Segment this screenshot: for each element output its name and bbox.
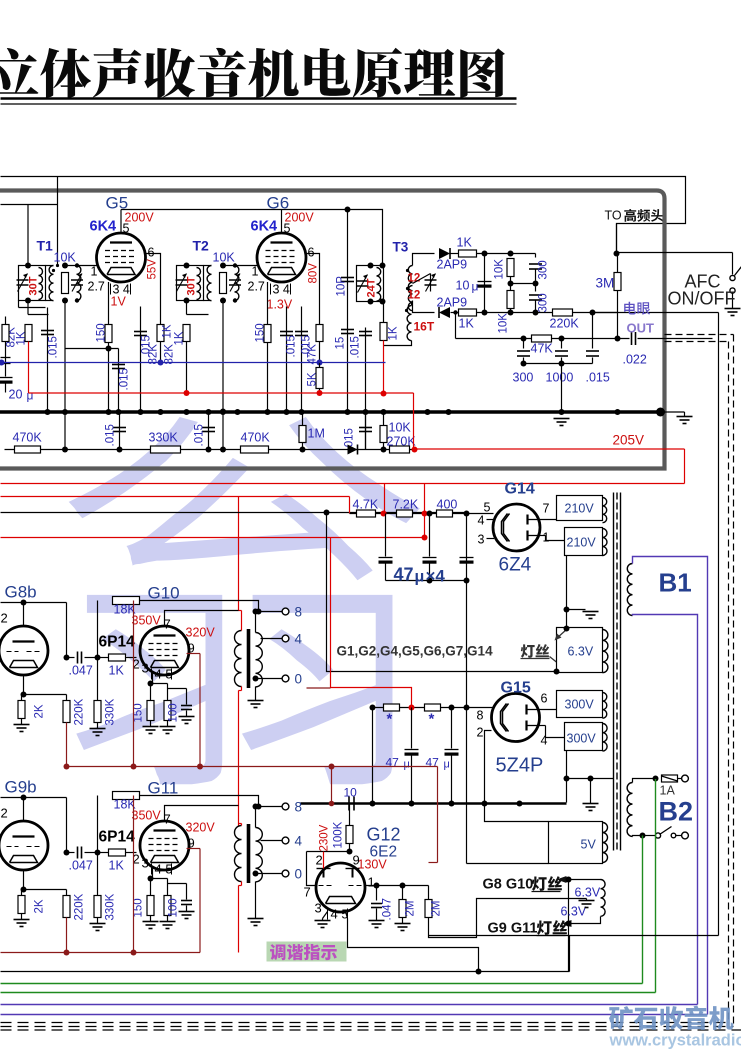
watermark character weng <box>69 417 420 784</box>
capacitor .015 det <box>592 313 594 349</box>
wire bus to gnd right <box>661 411 685 413</box>
svg-text:4 5: 4 5 <box>155 862 173 877</box>
capacitor 47u a <box>385 514 387 557</box>
wire to bus <box>561 364 563 412</box>
svg-text:47: 47 <box>386 756 400 770</box>
resistor 2K G8b <box>21 695 23 701</box>
svg-text:6.3V: 6.3V <box>575 886 601 900</box>
wire 230V red stub <box>323 852 325 869</box>
varcap T3 <box>425 279 437 281</box>
capacitor .015 T1 <box>47 308 49 412</box>
capacitor 20u left <box>5 353 7 377</box>
title text li ti sheng shou yin ji dian yuan li tu <box>0 48 505 98</box>
wire green mains b <box>642 836 644 984</box>
svg-text:7.2K: 7.2K <box>393 498 419 512</box>
svg-text:4.7K: 4.7K <box>353 498 379 512</box>
svg-text:5: 5 <box>284 222 291 236</box>
svg-text:47K: 47K <box>307 344 319 365</box>
resistor star b <box>425 704 441 711</box>
resistor 150 G11 <box>147 896 154 916</box>
wire 5V bottom return <box>467 863 549 865</box>
wire maroon rail upper <box>67 766 438 768</box>
wire pin3 gnd <box>323 912 328 919</box>
resistor 5K <box>316 368 323 389</box>
svg-text:2: 2 <box>1 611 8 626</box>
svg-text:μ: μ <box>404 759 410 771</box>
capacitor .015 G6a <box>286 307 288 412</box>
resistor 100 <box>164 701 171 721</box>
svg-text:T2: T2 <box>193 238 210 254</box>
shield box IF section gray frame <box>0 191 665 469</box>
svg-text:10K: 10K <box>389 421 412 435</box>
wire pin9 maroon <box>187 653 201 655</box>
wire afc gnd <box>732 294 734 309</box>
coil 210V lower <box>603 529 608 556</box>
resistor 1M <box>302 412 304 426</box>
wire red 483 corner 384 <box>384 484 386 514</box>
arrow G9G11 <box>562 920 572 927</box>
svg-text:3: 3 <box>478 533 485 547</box>
wire 935 horizontal <box>429 935 719 937</box>
resistor 470K a <box>15 446 41 453</box>
transformer T2 winding 10K <box>207 266 211 301</box>
coil 300V lower <box>603 724 608 752</box>
wire sec top to diode1 <box>413 254 435 266</box>
svg-text:G10: G10 <box>148 584 180 603</box>
resistor 10K row449 <box>383 412 385 426</box>
wire afc top <box>617 252 733 254</box>
wire G10 plate <box>165 611 239 627</box>
capacitor .015 T3 <box>365 328 367 450</box>
wire det gnd rail <box>524 363 593 365</box>
svg-text:μ: μ <box>27 389 34 403</box>
resistor 220K <box>66 890 68 896</box>
tube G12 6E2 <box>316 863 365 912</box>
box 210V upper <box>557 496 603 521</box>
resistor 82K screen G5 <box>157 325 164 342</box>
svg-text:150: 150 <box>133 898 145 917</box>
svg-text:7: 7 <box>304 885 311 900</box>
capacitor 1000 <box>561 339 563 349</box>
svg-text:80V: 80V <box>308 263 320 284</box>
wire pin4 G14 <box>487 519 495 521</box>
box 210V lower <box>565 528 603 556</box>
svg-text:G9 G11: G9 G11 <box>488 921 538 937</box>
ground stub 561 <box>554 418 570 420</box>
wire sec mid <box>261 638 282 640</box>
svg-text:2.7: 2.7 <box>248 280 265 294</box>
switch AFC <box>730 275 735 280</box>
wire row513 <box>350 513 494 515</box>
svg-text:320V: 320V <box>186 821 216 835</box>
resistor 330K <box>97 853 99 896</box>
svg-text:OUT: OUT <box>627 321 655 336</box>
resistor 1K upper <box>451 253 459 255</box>
svg-text:G8 G10: G8 G10 <box>483 877 534 893</box>
svg-text:5Z4P: 5Z4P <box>496 755 544 777</box>
svg-text:320V: 320V <box>186 626 216 640</box>
svg-text:.015: .015 <box>586 371 610 385</box>
wire red to star row <box>331 688 412 708</box>
svg-text:1K: 1K <box>174 331 186 345</box>
wire row707 drop <box>372 708 374 804</box>
svg-text:1M: 1M <box>308 427 325 441</box>
svg-text:15: 15 <box>335 337 347 350</box>
svg-text:*: * <box>387 711 393 728</box>
resistor 1K 82K T1 grid <box>25 325 32 342</box>
svg-text:G11: G11 <box>148 779 179 798</box>
svg-text:6P14: 6P14 <box>99 829 136 846</box>
svg-text:1.3V: 1.3V <box>267 298 293 312</box>
svg-text:.015: .015 <box>119 368 131 390</box>
wire 300V CT <box>566 751 568 779</box>
svg-text:1K: 1K <box>459 317 475 331</box>
svg-text:1: 1 <box>252 265 259 279</box>
svg-text:G15: G15 <box>501 680 531 697</box>
terminal 4 <box>282 635 289 642</box>
wire OT1 sec gnd <box>255 687 257 701</box>
lower bus <box>301 802 567 804</box>
svg-text:2: 2 <box>316 853 323 868</box>
svg-text:2: 2 <box>1 806 8 821</box>
capacitor 100 bypass <box>168 883 187 885</box>
resistor 150 G10 <box>147 701 154 721</box>
wire red drop to 205V <box>413 393 415 450</box>
wire purple rail 1004 <box>1 1004 698 1006</box>
svg-text:350V: 350V <box>132 614 162 628</box>
svg-text:30T: 30T <box>186 276 198 295</box>
wire bus end left <box>684 412 686 417</box>
wire B1 bottom purple <box>633 615 698 1005</box>
wire B1 top purple <box>633 557 708 1015</box>
wire 3M branch <box>593 312 618 314</box>
svg-text:3: 3 <box>142 661 149 676</box>
svg-text:9: 9 <box>353 853 360 868</box>
capacitor .047 G11 <box>67 852 75 854</box>
wire black rail 512 filament <box>1 512 467 514</box>
svg-text:B1: B1 <box>659 568 692 598</box>
wire G6 plate up <box>281 210 283 234</box>
tube G9b triode <box>0 821 48 870</box>
svg-text:1V: 1V <box>111 295 127 309</box>
capacitor .015 row449a <box>119 412 121 450</box>
title underline double <box>1 97 517 100</box>
svg-text:.015: .015 <box>194 424 206 446</box>
capacitor .015 row449c <box>365 412 367 450</box>
resistor 1K G11 <box>98 852 109 854</box>
wire dashed rail c <box>1 1029 741 1031</box>
winding 5V box <box>549 822 603 864</box>
svg-text:TO: TO <box>605 209 622 223</box>
fuse 1A <box>662 775 678 782</box>
resistor 47K G6 <box>316 325 323 342</box>
svg-text:470K: 470K <box>241 431 271 445</box>
svg-text:5V: 5V <box>581 838 597 852</box>
wire 16T top <box>411 302 413 306</box>
svg-text:G14: G14 <box>505 481 535 498</box>
box 300V lower <box>565 723 603 751</box>
svg-text:24T: 24T <box>366 278 378 297</box>
wire to 3M <box>616 224 618 254</box>
resistor 82K far left <box>2 325 9 342</box>
wire antenna input <box>1 204 58 206</box>
svg-text:10P: 10P <box>336 276 348 297</box>
wire red rail 537 <box>1 537 425 539</box>
wire green rail 983 <box>1 983 643 985</box>
terminal 8 <box>282 608 289 615</box>
svg-text:300V: 300V <box>567 732 597 746</box>
coil 6.3V no1 <box>603 630 608 673</box>
transformer output secondary <box>256 633 263 687</box>
capacitor 47u d <box>411 708 413 749</box>
wire black 971 corner <box>569 936 571 972</box>
tube G14 6Z4 <box>493 504 540 551</box>
svg-text:8: 8 <box>295 605 303 620</box>
wire T1 tank feed <box>27 205 29 266</box>
resistor 330K row449 <box>151 446 181 453</box>
coil 16T <box>407 306 411 341</box>
arrow filament <box>550 657 565 669</box>
transformer core bar <box>247 824 251 883</box>
svg-text:270K: 270K <box>387 435 417 449</box>
wire OT2 primary top <box>239 823 242 825</box>
wire grid column <box>66 798 68 853</box>
svg-text:5: 5 <box>484 501 491 515</box>
svg-text:.047: .047 <box>382 898 394 920</box>
resistor 330K <box>97 658 99 701</box>
capacitor .015 G5b <box>140 307 142 412</box>
svg-text:230V: 230V <box>319 824 331 851</box>
svg-text:6.3V: 6.3V <box>561 905 587 919</box>
capacitor 100 bypass <box>168 688 187 690</box>
resistor 18K <box>97 796 99 853</box>
resistor star a <box>384 704 400 711</box>
svg-text:μ: μ <box>444 759 450 771</box>
wire plate row G8b <box>1 602 67 604</box>
wire plate row G9b <box>1 797 67 799</box>
svg-text:8: 8 <box>477 709 484 723</box>
svg-text:1K: 1K <box>388 326 400 340</box>
inductor L1 30T tank of T1 <box>19 266 46 301</box>
capacitor 300 upper <box>535 254 537 258</box>
svg-text:4: 4 <box>478 514 485 528</box>
capacitor .015 G5 cath <box>118 349 120 412</box>
terminal 4 <box>282 837 289 844</box>
wire dashed drop b <box>728 342 730 1023</box>
resistor 4.7K <box>357 510 376 517</box>
svg-text:2: 2 <box>477 726 484 740</box>
resistor 1K lower <box>451 312 459 314</box>
svg-text:2.7: 2.7 <box>88 280 105 294</box>
svg-text:0: 0 <box>295 672 303 687</box>
switch mains <box>643 835 656 837</box>
junction dots on bus <box>45 409 51 415</box>
capacitor .047 G12 <box>376 886 378 901</box>
resistor 47K det <box>532 335 552 342</box>
svg-text:4: 4 <box>541 734 548 748</box>
resistor 10K upper <box>507 259 514 277</box>
wire sec bottom <box>256 873 282 875</box>
capacitor 10 series <box>348 797 350 811</box>
svg-text:.047: .047 <box>69 664 93 678</box>
svg-text:2M: 2M <box>405 901 417 917</box>
svg-text:5K: 5K <box>307 372 319 386</box>
svg-text:1A: 1A <box>660 784 676 798</box>
junction maroon <box>329 801 335 807</box>
label wire cathode join <box>65 348 119 350</box>
svg-text:10K: 10K <box>54 251 77 265</box>
resistor 3M <box>617 254 619 273</box>
svg-text:400: 400 <box>437 498 458 512</box>
wire 18K to terminal8 <box>140 601 259 612</box>
svg-text:150: 150 <box>133 703 145 722</box>
tube G8b triode <box>0 626 48 675</box>
svg-text:G8b: G8b <box>5 583 37 602</box>
svg-text:T1: T1 <box>37 238 54 254</box>
inductor tank T3 24T <box>357 266 384 302</box>
wire row449 <box>5 449 415 451</box>
diode 2AP9 lower <box>439 307 450 318</box>
tube G10 6P14 <box>140 626 189 675</box>
capacitor 300 det <box>523 339 525 349</box>
svg-text:6.3V: 6.3V <box>568 645 594 659</box>
svg-text:×4: ×4 <box>426 567 446 586</box>
coil 210V upper <box>603 498 607 523</box>
wire out 022 right <box>700 338 702 340</box>
svg-text:2M: 2M <box>431 901 443 917</box>
terminal 8 <box>282 803 289 810</box>
resistor 220K <box>66 695 68 701</box>
wire G12 left loop <box>307 852 318 886</box>
wire green rail 992 <box>1 992 656 994</box>
svg-text:82K: 82K <box>164 344 176 365</box>
wire B2 bottom <box>633 836 643 837</box>
wire filament return G9G11 <box>568 924 570 972</box>
wire 16T bottom to 1K <box>384 341 412 346</box>
capacitor 47u e <box>451 708 453 749</box>
wire grid column <box>66 603 68 658</box>
wire 210V CT chain <box>566 556 568 610</box>
wire G11 cathode <box>151 869 153 879</box>
wire caps gnd rail <box>386 580 467 582</box>
wire G5 screen pin6 <box>146 254 161 325</box>
transformer output primary <box>235 826 242 882</box>
svg-text:3 4: 3 4 <box>273 283 290 297</box>
wire maroon pin9 G10 drop <box>199 654 201 767</box>
svg-text:4: 4 <box>295 632 303 647</box>
wire G8b cathode <box>24 675 67 695</box>
tube G6 6K4 <box>257 233 306 282</box>
coil B2 primary <box>627 783 632 837</box>
resistor 2K G9b <box>21 890 23 896</box>
svg-text:1000: 1000 <box>546 371 574 385</box>
resistor 150 G6 <box>264 325 271 343</box>
svg-text:6P14: 6P14 <box>99 634 136 651</box>
wire G6 screen <box>306 254 320 325</box>
coil 6.3V no2 <box>601 880 606 917</box>
wire sec bottom to diode2 <box>413 301 435 313</box>
wire G5 cathode <box>108 282 110 325</box>
wire G6 cathode <box>267 282 269 325</box>
wire red rail 483 <box>1 483 685 485</box>
svg-text:μ: μ <box>472 280 479 294</box>
svg-text:4: 4 <box>295 834 303 849</box>
terminal 0 <box>282 870 289 877</box>
wire B2 top <box>633 779 656 783</box>
resistor 400 <box>437 510 453 517</box>
wire pin2 G15 <box>485 731 549 822</box>
svg-text:10: 10 <box>344 786 358 800</box>
wire maroon 437 to row <box>429 862 438 864</box>
arrow filament upper <box>557 630 567 639</box>
wire T2 bottom down <box>222 301 224 450</box>
transformer output primary <box>235 631 242 687</box>
resistor 1K vert T3 <box>383 302 385 323</box>
svg-text:10K: 10K <box>498 313 510 334</box>
svg-text:30T: 30T <box>28 276 40 295</box>
wire red 687 from maroon <box>307 687 331 689</box>
terminal 0 <box>282 675 289 682</box>
svg-text:7: 7 <box>543 502 550 516</box>
transformer core <box>613 493 615 851</box>
capacitor 10u electrolytic <box>484 254 486 313</box>
tube G11 6P14 <box>140 821 189 870</box>
wire dashed out a <box>665 334 734 336</box>
wire red 205V line <box>415 448 685 450</box>
svg-text:3M: 3M <box>596 276 615 291</box>
svg-text:1: 1 <box>91 265 98 279</box>
svg-text:5: 5 <box>123 222 130 236</box>
svg-text:6: 6 <box>541 692 548 706</box>
capacitor 10P <box>347 210 349 412</box>
svg-text:130V: 130V <box>358 858 388 872</box>
wire 2Mb return <box>429 899 587 938</box>
wire sec bottom <box>256 678 282 680</box>
svg-text:G1,G2,G4,G5,G6,G7,G14: G1,G2,G4,G5,G6,G7,G14 <box>337 644 494 659</box>
resistor 100K <box>349 804 351 826</box>
wire stub left <box>455 313 457 339</box>
diode 2AP9 upper <box>439 248 450 259</box>
svg-text:1: 1 <box>368 875 375 890</box>
capacitor .015 row449b <box>208 412 210 450</box>
wire red rail 496 <box>1 496 350 498</box>
resistor 470K b <box>241 446 269 453</box>
capacitor 47u b <box>429 514 431 557</box>
wire G9b cathode <box>24 870 67 890</box>
winding 6.3V no1 box <box>557 628 603 673</box>
svg-text:220K: 220K <box>550 317 580 331</box>
svg-text:100K: 100K <box>333 821 345 848</box>
svg-text:.015: .015 <box>48 336 60 358</box>
label dianyan <box>624 302 650 315</box>
wire fuse to term <box>678 778 682 780</box>
wire CT gnd2 <box>567 778 614 780</box>
svg-text:1K: 1K <box>457 236 473 250</box>
wire T1 tank bottom <box>18 301 20 308</box>
svg-text:G9b: G9b <box>5 778 37 797</box>
svg-text:10: 10 <box>456 279 470 293</box>
wire maroon pin9 G11 drop <box>199 849 201 953</box>
svg-text:2AP9: 2AP9 <box>437 258 468 272</box>
wire red branch OT <box>238 497 240 611</box>
svg-text:2K: 2K <box>34 704 46 718</box>
wire OT2 primary bottom <box>241 882 243 886</box>
terminal B2 a <box>682 775 689 782</box>
svg-text:T3: T3 <box>393 240 409 255</box>
tube G5 6K4 <box>97 233 146 282</box>
svg-text:.015: .015 <box>105 424 117 446</box>
wire pin4 G15 to 300V <box>539 725 546 727</box>
